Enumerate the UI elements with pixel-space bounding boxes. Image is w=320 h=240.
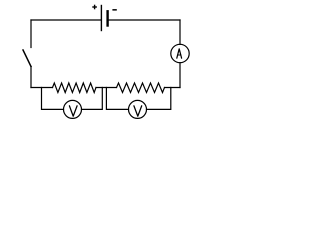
- wire bottom middle segment: [96, 87, 117, 89]
- wire voltmeter V1 left drop: [42, 88, 64, 110]
- resistor R2: [117, 83, 165, 93]
- wire bottom right segment: [165, 87, 181, 89]
- battery B1 negative plate: [106, 11, 108, 25]
- wire voltmeter V2 left drop: [106, 88, 128, 110]
- switch S1 blade: [23, 50, 31, 67]
- battery plus label: [92, 5, 97, 10]
- voltmeter V2 circle: [129, 100, 147, 118]
- voltmeter 1 label V: [69, 106, 77, 116]
- wire right vertical upper: [179, 20, 181, 44]
- voltmeter V1 circle: [64, 100, 82, 118]
- resistor R1: [53, 83, 97, 93]
- battery minus label: [112, 9, 116, 11]
- wire bottom left segment: [31, 87, 53, 89]
- wire voltmeter V2 right drop: [147, 88, 171, 110]
- wire right vertical lower: [179, 63, 181, 88]
- voltmeter 2 label V: [134, 106, 142, 116]
- ammeter label A: [177, 49, 182, 58]
- wire left vertical upper: [30, 20, 32, 48]
- wire left vertical lower: [30, 67, 32, 88]
- wire top-left horizontal: [31, 19, 101, 21]
- wire top-right horizontal: [108, 19, 180, 21]
- battery B1 positive plate: [100, 6, 102, 31]
- wire voltmeter V1 right drop: [82, 88, 103, 110]
- ammeter A1 circle: [171, 44, 189, 62]
